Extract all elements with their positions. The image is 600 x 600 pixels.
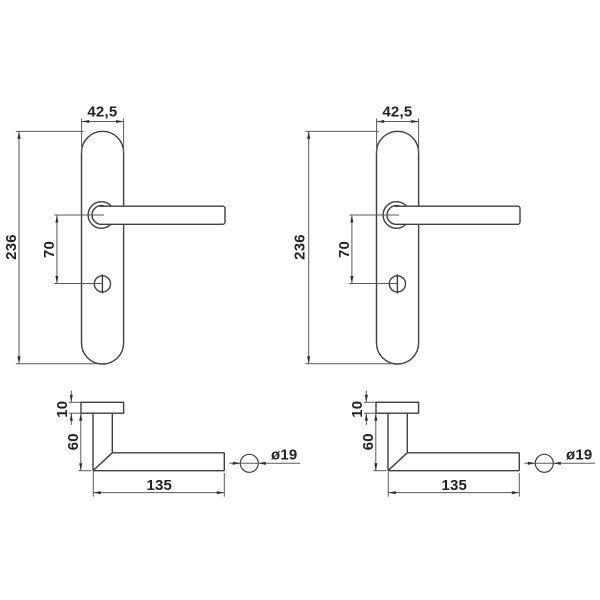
svg-text:60: 60 xyxy=(360,433,377,450)
svg-text:236: 236 xyxy=(291,234,308,260)
svg-text:42,5: 42,5 xyxy=(382,104,412,121)
svg-text:10: 10 xyxy=(54,401,71,418)
svg-text:236: 236 xyxy=(3,234,20,260)
svg-text:10: 10 xyxy=(349,401,366,418)
svg-text:70: 70 xyxy=(41,241,58,258)
svg-text:70: 70 xyxy=(336,241,353,258)
svg-text:135: 135 xyxy=(146,477,172,494)
svg-text:60: 60 xyxy=(65,433,82,450)
svg-text:ø19: ø19 xyxy=(271,447,297,464)
svg-text:135: 135 xyxy=(441,477,467,494)
svg-text:42,5: 42,5 xyxy=(87,104,117,121)
svg-text:ø19: ø19 xyxy=(566,447,592,464)
